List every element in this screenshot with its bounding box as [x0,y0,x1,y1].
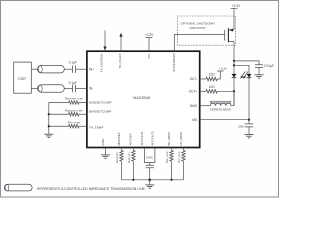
wire TX_FAULT output [120,36,122,51]
svg-text:OUT+: OUT+ [189,90,198,94]
node junction (photodiode branch) [233,64,235,66]
wire ferrite bead up to laser cathode node [231,91,234,105]
wire TL1 to C1 [64,68,72,70]
svg-text:MODSETCOMP: MODSETCOMP [89,101,112,105]
svg-text:APCFILT1: APCFILT1 [140,131,144,145]
wire 10 ohm to laser cathode node [217,90,234,92]
svg-text:TX_FAULT: TX_FAULT [118,53,122,68]
node junction (bypass cap branch) [233,60,235,62]
wire to photodiode anode [234,65,249,74]
resistor RTH_TEMP [49,120,87,128]
wire SHUTDOWN to gate [174,35,224,52]
resistor RAPCSET [127,148,135,180]
transmission line TL1 (cylinder) [38,65,65,73]
resistor RPC_MON [177,148,185,180]
resistor RMODSETCOMP [49,97,87,105]
ground (CMD) [245,135,254,138]
wire BIAS to ferrite bead [200,105,211,107]
ground (GND pin) [101,155,110,158]
capacitor C1 0.1uF [69,61,77,73]
svg-text:15Ω: 15Ω [209,73,216,77]
arrowhead into TX_DISABLE [103,47,106,51]
border frame [1,1,279,198]
svg-text:GND: GND [101,138,105,146]
wire C1 to IN+ [76,68,87,70]
capacitor CMD [238,120,253,135]
svg-text:APCFILT2: APCFILT2 [150,131,154,145]
supply +3.3V at Q1 source [231,4,242,30]
ground (bypass cap) [255,75,264,78]
wire laser cathode down [233,78,235,106]
svg-text:+3.3V: +3.3V [232,4,241,8]
svg-text:TH_TEMP: TH_TEMP [89,126,103,130]
wire photodiode cathode down to MD [248,78,250,120]
svg-text:CMD: CMD [238,125,244,129]
monitor photodiode D2 [247,74,252,78]
wire vertical join of left resistors [48,103,50,135]
supply +3.3V pullup at OUT- [217,67,228,79]
svg-text:CIRCUITRY: CIRCUITRY [189,26,206,30]
svg-text:OPTIONAL SHUTDOWN: OPTIONAL SHUTDOWN [181,22,215,26]
transistor Q1 PMOS [225,28,234,42]
svg-text:+3.3V: +3.3V [219,67,228,71]
supply +3.3V at VCC [145,33,154,51]
svg-text:PC_MON: PC_MON [179,132,183,145]
resistor 15 ohm [206,73,217,81]
node junction RBC_MON on rail [170,179,172,181]
resistor RMODSET [115,148,123,180]
svg-text:0.1µF: 0.1µF [69,81,77,85]
svg-text:IN+: IN+ [89,67,94,71]
node junction CAPC on rail [148,179,151,182]
resistor 10 ohm [206,85,217,93]
svg-text:MODSET: MODSET [117,132,121,145]
svg-text:+3.3V: +3.3V [145,33,154,37]
ground (bottom rail) [145,180,154,189]
ground (left resistors) [44,134,53,137]
svg-text:MD: MD [192,118,198,122]
svg-text:TX_DISABLE: TX_DISABLE [99,54,103,73]
capacitor C2 0.1uF [69,81,77,92]
laser diode LD [232,74,237,78]
node junction MD [248,119,250,121]
svg-text:CDR: CDR [18,77,26,81]
transmission line TL2 (cylinder) [38,85,65,93]
IC U1 MAX3548 body [87,51,200,147]
resistor RBC_MON [165,148,173,180]
svg-text:BC_MON: BC_MON [167,132,171,145]
svg-text:0.01µF: 0.01µF [264,64,274,68]
wire Q1 drain down to laser supply node [233,42,235,74]
capacitor CAPC between APCFILT1 and APCFILT2 [145,148,155,180]
wire OUT+ to 10 ohm [200,90,206,92]
svg-text:OUT-: OUT- [190,77,198,81]
svg-text:10Ω: 10Ω [209,85,216,89]
arrowhead out of TX_FAULT [119,33,122,37]
svg-text:0.1µF: 0.1µF [69,61,77,65]
svg-text:BIAS: BIAS [190,104,197,108]
capacitor 0.01uF [255,64,274,75]
wire GND pin [105,148,107,155]
svg-text:IN-: IN- [89,87,93,91]
wire TX_DISABLE input [104,31,106,47]
resistor RBIASSETCOMP [49,108,87,116]
optional shutdown circuitry dashed box [178,16,236,45]
svg-text:REPRESENTS A CONTROLLED-IMPEDA: REPRESENTS A CONTROLLED-IMPEDANCE TRANSM… [37,187,146,191]
node junction laser cathode / OUT+ / bead [233,90,235,92]
wire MD pin [200,119,249,121]
svg-text:CAPC: CAPC [146,156,153,160]
svg-text:SHUTDOWN: SHUTDOWN [172,54,176,72]
bottom ground rail wire [122,179,184,181]
svg-text:BIASSETCOMP: BIASSETCOMP [89,110,111,114]
wire CDR to TL1 [31,68,37,70]
node junction at RTH_TEMP [48,125,50,127]
svg-text:FERRITE BEAD: FERRITE BEAD [210,107,230,111]
laser light arrows toward monitor photodiode [241,71,248,78]
svg-text:VCC: VCC [147,53,151,59]
node junction at RBIASSETCOMP [48,113,50,115]
wire C2 to IN- [76,88,87,90]
wire OUT- to 15 ohm [200,78,206,80]
svg-text:APCSET: APCSET [129,133,133,145]
wire to bypass capacitor [234,61,259,65]
svg-text:MAX3548: MAX3548 [133,96,150,100]
ferrite bead FB1 [210,101,231,111]
node junction RAPCSET on rail [132,179,134,181]
CDR box [14,62,32,93]
wire CDR to TL2 [31,88,37,90]
legend transmission line cylinder [4,184,32,191]
wire TL2 to C2 [64,88,72,90]
